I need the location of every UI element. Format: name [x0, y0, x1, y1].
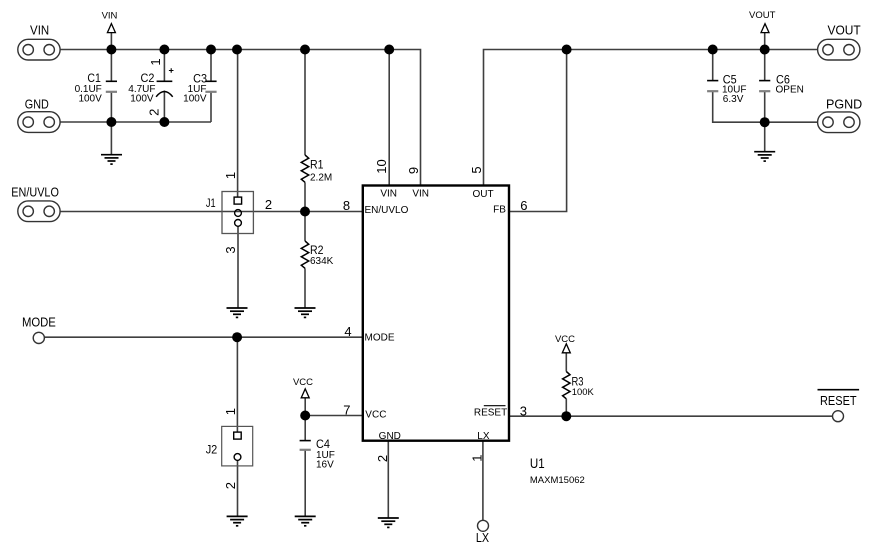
svg-text:1: 1 [223, 408, 238, 415]
wire C4 branch [304, 416, 306, 517]
node MODE-J2 [232, 332, 242, 342]
wire J2 pin1 branch [236, 337, 238, 432]
svg-text:RESET: RESET [820, 393, 857, 408]
wire pin10 branch [388, 50, 390, 186]
svg-text:J1: J1 [206, 196, 216, 210]
wire R1 to EN node [304, 182, 306, 211]
wire J1 pin1 branch [237, 50, 239, 198]
svg-text:2.2M: 2.2M [310, 173, 332, 184]
svg-text:MAXM15062: MAXM15062 [530, 475, 585, 486]
pin 7 VCC label [343, 402, 386, 420]
capacitor C6 [759, 73, 804, 96]
svg-text:100V: 100V [78, 94, 102, 105]
svg-text:5: 5 [469, 166, 484, 173]
node C1-GND [106, 117, 116, 127]
svg-text:4: 4 [344, 324, 351, 339]
svg-text:6: 6 [520, 198, 527, 213]
node VCC-C4 [300, 411, 310, 421]
svg-text:634K: 634K [310, 256, 334, 267]
pin 3 RESET label [474, 403, 527, 418]
wire VCC flag stem at C4 [304, 398, 306, 416]
jumper J2 [206, 408, 253, 489]
pin 10 VIN label [374, 159, 397, 199]
svg-text:6.3V: 6.3V [723, 94, 744, 105]
svg-text:2: 2 [265, 197, 272, 212]
svg-text:J2: J2 [206, 443, 218, 457]
svg-text:1: 1 [469, 455, 484, 462]
svg-text:VCC: VCC [365, 410, 386, 421]
wire PGND to ground [764, 122, 766, 152]
pin 4 MODE label [344, 324, 394, 344]
svg-text:VIN: VIN [380, 189, 397, 200]
connector RESET output [833, 411, 844, 422]
wire GND rail [60, 121, 211, 123]
svg-text:GND: GND [379, 431, 401, 442]
wire VCC flag stem at R3 [565, 353, 567, 372]
svg-text:VIN: VIN [412, 189, 429, 200]
svg-text:9: 9 [406, 167, 421, 174]
svg-text:R1: R1 [310, 160, 324, 172]
ground below C1/GND [101, 155, 122, 164]
svg-text:VOUT: VOUT [828, 22, 861, 37]
svg-text:MODE: MODE [22, 315, 56, 330]
resistor R3 [563, 372, 595, 399]
wire EN/UVLO horizontal [60, 211, 363, 213]
node C2-VIN [159, 45, 169, 55]
ground below R2 [295, 308, 316, 317]
capacitor C3 [183, 71, 216, 104]
capacitor C5 [707, 73, 746, 106]
svg-text:FB: FB [493, 205, 506, 216]
svg-text:C4: C4 [316, 437, 330, 451]
wire R2 bottom to ground [304, 268, 306, 308]
wire OUT pin5 to rail2 [484, 50, 818, 186]
wire C6 branch [764, 50, 766, 123]
pin 1 LX label [469, 431, 490, 462]
wire VIN rail top [60, 50, 420, 186]
svg-text:C2: C2 [141, 71, 155, 85]
ground below PGND [754, 152, 775, 161]
node pin10-VIN [384, 45, 394, 55]
pin 5 OUT label [469, 166, 493, 200]
ground below J2 [227, 516, 248, 525]
wire PGND horizontal [765, 121, 818, 123]
wire C2 branch [163, 50, 165, 123]
pin 8 EN/UVLO label [343, 198, 409, 216]
svg-text:RESET: RESET [474, 407, 507, 418]
wire J1 pin3 to ground [237, 226, 239, 308]
connector MODE [33, 332, 44, 343]
capacitor C2 (polarized) [128, 58, 173, 116]
wire J2 pin2 to ground [237, 460, 239, 516]
jumper J1 [206, 172, 272, 254]
power flag VIN [102, 11, 118, 33]
wire MODE horizontal [45, 336, 363, 338]
capacitor C4 [300, 437, 335, 471]
power flag VOUT [749, 10, 776, 33]
svg-text:2: 2 [147, 109, 162, 116]
node R1-VIN [300, 45, 310, 55]
svg-text:100V: 100V [130, 93, 154, 104]
svg-text:PGND: PGND [826, 96, 862, 111]
svg-text:VOUT: VOUT [749, 10, 776, 21]
svg-text:OPEN: OPEN [776, 84, 804, 95]
svg-text:VCC: VCC [555, 334, 575, 345]
svg-text:VCC: VCC [293, 377, 313, 388]
svg-text:2: 2 [375, 455, 390, 462]
svg-text:1: 1 [148, 58, 163, 65]
wire RESET horizontal [509, 415, 833, 417]
connector VOUT [818, 39, 860, 60]
svg-text:U1: U1 [530, 455, 545, 471]
pin 2 GND label [375, 431, 401, 462]
wire GND pin2 branch [387, 441, 389, 518]
op-amp U1 MAXM15062 body [363, 186, 585, 487]
svg-text:EN/UVLO: EN/UVLO [11, 185, 59, 200]
svg-text:3: 3 [223, 246, 238, 253]
connector EN/UVLO [18, 201, 60, 222]
wire VOUT flag stem [764, 33, 766, 50]
resistor R2 [301, 241, 333, 268]
node C5-PGND [760, 117, 770, 127]
svg-text:VIN: VIN [102, 11, 118, 22]
ground below C4 [295, 516, 316, 525]
svg-text:C1: C1 [87, 71, 101, 85]
svg-text:VIN: VIN [30, 22, 49, 37]
node C5-OUT [708, 45, 718, 55]
node FB-OUT [562, 45, 572, 55]
wire C5 branch [713, 50, 765, 123]
svg-text:3: 3 [520, 403, 527, 418]
svg-text:8: 8 [343, 198, 350, 213]
ground below U1 GND pin [378, 518, 399, 527]
node C6-OUT [760, 45, 770, 55]
ground below J1 [227, 308, 248, 317]
svg-text:7: 7 [343, 402, 350, 417]
svg-text:LX: LX [476, 531, 490, 545]
svg-text:100K: 100K [572, 386, 595, 397]
wire VIN flag stem [110, 33, 112, 50]
pin 9 VIN label [406, 167, 429, 200]
svg-text:GND: GND [25, 96, 49, 111]
svg-text:LX: LX [477, 431, 490, 442]
power flag VCC at C4 [293, 377, 313, 398]
node C3-VIN [206, 45, 216, 55]
resistor R1 [301, 155, 332, 184]
pin 6 FB label [493, 198, 527, 216]
capacitor C1 [75, 71, 117, 105]
connector LX output [478, 520, 489, 531]
wire R1 branch [304, 50, 306, 156]
svg-text:16V: 16V [316, 459, 334, 470]
wire R2 top [304, 212, 306, 242]
connector GND [18, 112, 60, 133]
svg-text:2: 2 [223, 482, 238, 489]
wire LX pin1 branch [482, 441, 484, 521]
wire FB branch [509, 50, 567, 212]
power flag VCC at R3 [555, 334, 575, 353]
node EN-R1R2 [300, 207, 310, 217]
svg-text:1: 1 [223, 172, 238, 179]
node C1-VIN [106, 45, 116, 55]
wire VCC node to pin7 [305, 415, 363, 417]
wire C1 branch [110, 50, 112, 155]
connector VIN [18, 39, 60, 60]
node J1-VIN [232, 45, 242, 55]
svg-text:EN/UVLO: EN/UVLO [365, 205, 409, 216]
wire R3 bottom [565, 399, 567, 416]
node C2-GND [159, 117, 169, 127]
wire C3 branch [210, 50, 212, 123]
svg-text:MODE: MODE [365, 333, 395, 344]
node RESET-R3 [561, 411, 571, 421]
svg-text:OUT: OUT [472, 189, 493, 200]
svg-text:100V: 100V [183, 93, 207, 104]
connector PGND [818, 112, 860, 133]
svg-text:10: 10 [374, 159, 389, 173]
